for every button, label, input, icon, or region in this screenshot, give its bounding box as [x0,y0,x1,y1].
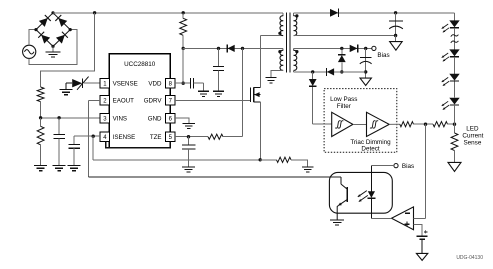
ground ISENSE cap [68,166,81,171]
node aux/VDD [182,47,185,50]
node VINS-R [39,116,42,119]
svg-text:UDG-04130: UDG-04130 [456,255,483,261]
node bias D2 [340,47,343,50]
ground divider [34,166,47,171]
label LED Current Sense [462,126,483,147]
battery reference [417,230,428,253]
transformer secondary winding [294,13,299,36]
wire VDD riser [182,48,184,83]
node LED sense [453,123,456,126]
svg-text:VINS: VINS [113,115,127,122]
ground TZE cap [182,167,195,172]
svg-text:EAOUT: EAOUT [113,98,135,105]
wire aux [183,47,283,49]
diode bias D2 [350,45,358,53]
node ISENSE [92,135,95,138]
LED D8 [442,49,460,61]
LED D7 [442,20,460,32]
AC source V1 [23,45,36,58]
ground VSENSE [60,83,73,95]
wire source [260,102,262,160]
wire AC loop [29,30,77,65]
resistor divider bottom [37,118,44,166]
IC pins and labels [100,79,175,142]
svg-text:ISENSE: ISENSE [113,134,136,141]
bridge diode lower-right [56,32,68,44]
transistor Q1 MOSFET [250,87,260,101]
wire LED string top [454,13,456,21]
wire LPF output [389,123,400,125]
ground sense resistor [302,167,314,172]
transformer primary winding [278,13,283,36]
op-amp U5 [392,207,414,230]
transformer bias winding [294,48,299,70]
wire EAOUT feedback line [88,176,341,178]
capacitor VINS [53,118,65,166]
resistor LED current sense [451,124,458,162]
buffer U2 low pass filter [332,112,353,136]
ground LED sense (triangle) [448,162,461,171]
svg-text:Bias: Bias [377,52,389,59]
wire VDD pin [175,82,183,84]
svg-text:UCC28810: UCC28810 [124,61,156,68]
node triac tap [311,70,314,73]
ground bias cap (triangle) [360,78,371,85]
resistor startup [180,13,187,49]
node output cap [394,11,397,14]
capacitor TZE [182,137,196,167]
diode output D1 [330,9,339,17]
bridge rectifier BR1 [34,11,71,48]
wire detect out [414,123,434,125]
optocoupler phototransistor [337,177,347,220]
wire drain [260,36,262,88]
diode triac sense D6 [309,72,317,124]
wire aux winding to ground [271,70,283,77]
svg-text:LED: LED [466,126,479,133]
terminal Bias 1 [372,46,390,59]
node bias bottom [340,70,343,73]
node top rail / startup [182,11,185,14]
svg-text:VDD: VDD [148,81,162,88]
wire ISENSE to sense node [93,136,260,160]
node aux TZE [241,47,244,50]
node VDD [182,82,185,85]
wire LPF mid [353,123,367,125]
wire LED 2-3 [454,57,456,74]
capacitor VDD [183,78,203,91]
svg-text:GDRV: GDRV [144,98,163,105]
wire divider riser [41,13,95,87]
node VINS-C [57,116,60,119]
node return [394,34,397,37]
resistor TZE [208,134,223,139]
wire EAOUT [88,100,100,177]
ground opto emitter [330,220,344,225]
svg-text:Filter: Filter [337,103,351,110]
ground bridge [46,46,61,57]
wire LPF input [313,123,332,125]
resistor divider top [37,87,44,102]
buffer U3 triac detect [367,112,390,136]
ground GND pin [175,118,195,129]
wire VSENSE [84,82,100,84]
wire TZE riser [242,48,244,136]
wire IC bottom loop [106,141,171,147]
wire GDRV [175,99,250,101]
wire bias bottom [294,70,366,72]
svg-text:Current: Current [462,133,483,140]
node bias cap [364,47,367,50]
diode bias clamp D4 [338,48,346,72]
optocoupler U4 body [329,172,392,213]
box Triac Dimming Detect [324,89,397,153]
svg-text:GND: GND [148,115,162,122]
node aux cap [217,47,220,50]
wire opamp output [371,217,391,219]
wire opamp noninverting input [414,224,423,236]
LED D10 [442,98,460,110]
transformer aux winding [278,48,283,70]
label UDG [456,255,483,261]
ground aux cap [213,91,224,96]
svg-text:TZE: TZE [150,134,162,141]
wire secondary return [294,35,396,37]
capacitor bias [360,48,372,78]
ground VINS cap [53,166,66,171]
wire divider mid [40,102,42,118]
ground VDD cap [198,91,209,96]
capacitor ISENSE filter [68,136,80,165]
diode bias return D5 [327,68,335,76]
resistor detect out R2 [433,122,448,127]
LED D9 [442,74,460,86]
wire TZE [175,136,208,138]
wire secondary top [294,12,455,14]
svg-text:VSENSE: VSENSE [113,81,138,88]
node top rail / divider [93,11,96,14]
diode VSENSE clamp [66,77,89,90]
resistor sense [260,157,308,167]
wire break squiggle [451,28,459,50]
svg-text:Detect: Detect [361,146,379,153]
ground transformer [266,78,277,83]
capacitor output [389,13,403,36]
wire TZE to riser [223,136,243,138]
ground output (triangle) [390,36,403,51]
wire opamp inverting input [414,217,426,219]
ground battery (triangle) [416,253,427,260]
wire LED 3-4 [454,81,456,97]
node opamp sense [424,123,427,126]
diode aux D3 [227,45,235,53]
wire bias top [294,47,372,49]
wire top rail [53,12,283,14]
node TZE [187,135,190,138]
node bias cap bottom [364,70,367,73]
wire opamp sense drop [425,124,427,218]
wire primary bottom [261,35,284,37]
transformer core [287,13,290,73]
optocoupler LED [358,166,376,219]
wire LED 4-sense [454,105,456,124]
node source sense [259,158,262,161]
wire ISENSE [74,135,100,137]
wire VINS [41,117,101,119]
wire to LED sense node [448,123,455,125]
svg-text:Sense: Sense [463,140,481,147]
resistor detect out R1 [400,122,414,127]
capacitor aux [213,48,224,91]
op IC UCC28810 body [109,54,170,148]
terminal Bias 2 [371,163,414,170]
svg-text:Bias: Bias [402,163,414,170]
